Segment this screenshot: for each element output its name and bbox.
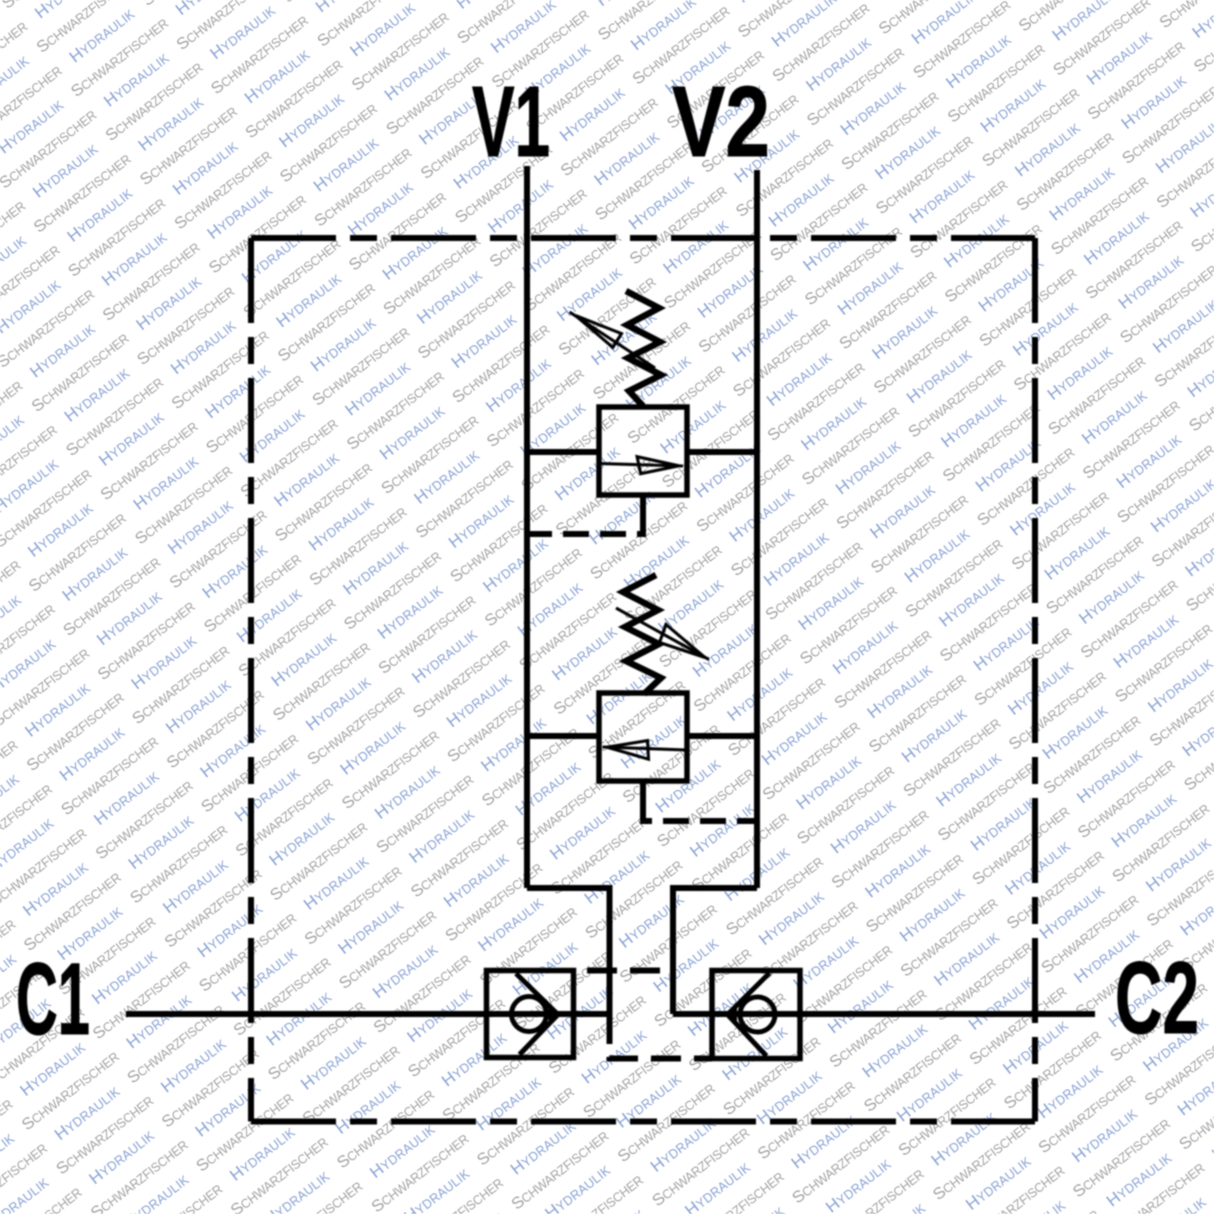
svg-text:V2: V2 (672, 66, 770, 178)
relief valve RV1 adjustment arrow (570, 312, 656, 368)
check valve CV1 ball (512, 997, 547, 1032)
relief valve RV1 flow arrow (599, 457, 683, 474)
check valve CV1 seat wedge (549, 1008, 559, 1022)
enclosure dashed box bottom edge (251, 1119, 1035, 1125)
check valve CV2 body (712, 971, 800, 1059)
relief valve RV1 pilot dashed line (527, 514, 643, 534)
relief valve RV2 pilot dashed line (643, 804, 757, 821)
enclosure dashed box left edge (248, 238, 254, 1122)
check valve CV1 pilot dashed line (574, 968, 673, 974)
enclosure dashed box top edge (251, 235, 1035, 241)
wire V2 jog to node B (673, 888, 757, 1014)
svg-text:C1: C1 (16, 942, 90, 1056)
wire C2 main line (673, 1011, 1095, 1017)
relief valve RV1 pilot stub (640, 495, 646, 514)
relief valve RV2 adjustment arrow (616, 608, 709, 660)
check valve CV2 seat (728, 973, 770, 1056)
relief valve RV2 flow arrow (603, 741, 687, 760)
wire upper relief valve branch (527, 449, 757, 455)
check valve CV1 seat (516, 974, 558, 1055)
wire V2 vertical line (754, 170, 760, 888)
check valve CV2 seat wedge (727, 1008, 737, 1022)
check valve CV2 pilot dashed line (610, 1014, 713, 1059)
relief valve RV2 spring (623, 575, 661, 694)
wire lower relief valve branch (527, 733, 757, 739)
svg-text:C2: C2 (1115, 941, 1199, 1055)
wire C1 main line (126, 1011, 610, 1017)
check valve CV2 ball (740, 997, 775, 1032)
wire V1 vertical line (524, 166, 530, 888)
relief valve RV2 body (599, 693, 687, 781)
svg-text:V1: V1 (472, 66, 550, 178)
relief valve RV1 body (599, 407, 687, 495)
wire V1 jog to node A (527, 888, 610, 1014)
relief valve RV2 pilot stub (640, 781, 646, 804)
check valve CV1 body (487, 971, 574, 1058)
relief valve RV1 spring (626, 291, 661, 406)
enclosure dashed box right edge (1032, 238, 1038, 1122)
